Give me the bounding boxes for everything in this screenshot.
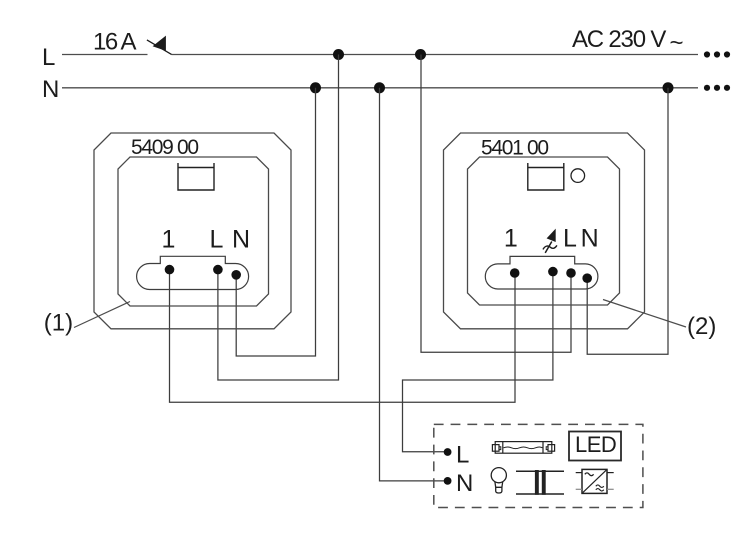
svg-text:L: L xyxy=(563,225,577,253)
svg-text:1: 1 xyxy=(162,226,176,254)
svg-text:L: L xyxy=(456,441,469,468)
svg-text:N: N xyxy=(581,225,599,253)
svg-text:~: ~ xyxy=(670,29,684,56)
svg-text:N: N xyxy=(42,76,59,103)
svg-text:LED: LED xyxy=(575,432,616,457)
svg-text:1: 1 xyxy=(504,225,518,253)
svg-text:(1): (1) xyxy=(44,310,73,337)
svg-text:5401 00: 5401 00 xyxy=(481,137,548,160)
svg-text:AC 230 V: AC 230 V xyxy=(572,26,666,53)
svg-text:5409 00: 5409 00 xyxy=(131,136,198,159)
svg-text:L: L xyxy=(42,44,55,71)
svg-text:N: N xyxy=(232,226,250,254)
svg-text:16 A: 16 A xyxy=(93,29,137,56)
svg-text:N: N xyxy=(456,470,473,497)
svg-text:L: L xyxy=(210,226,224,254)
svg-text:(2): (2) xyxy=(687,313,716,340)
